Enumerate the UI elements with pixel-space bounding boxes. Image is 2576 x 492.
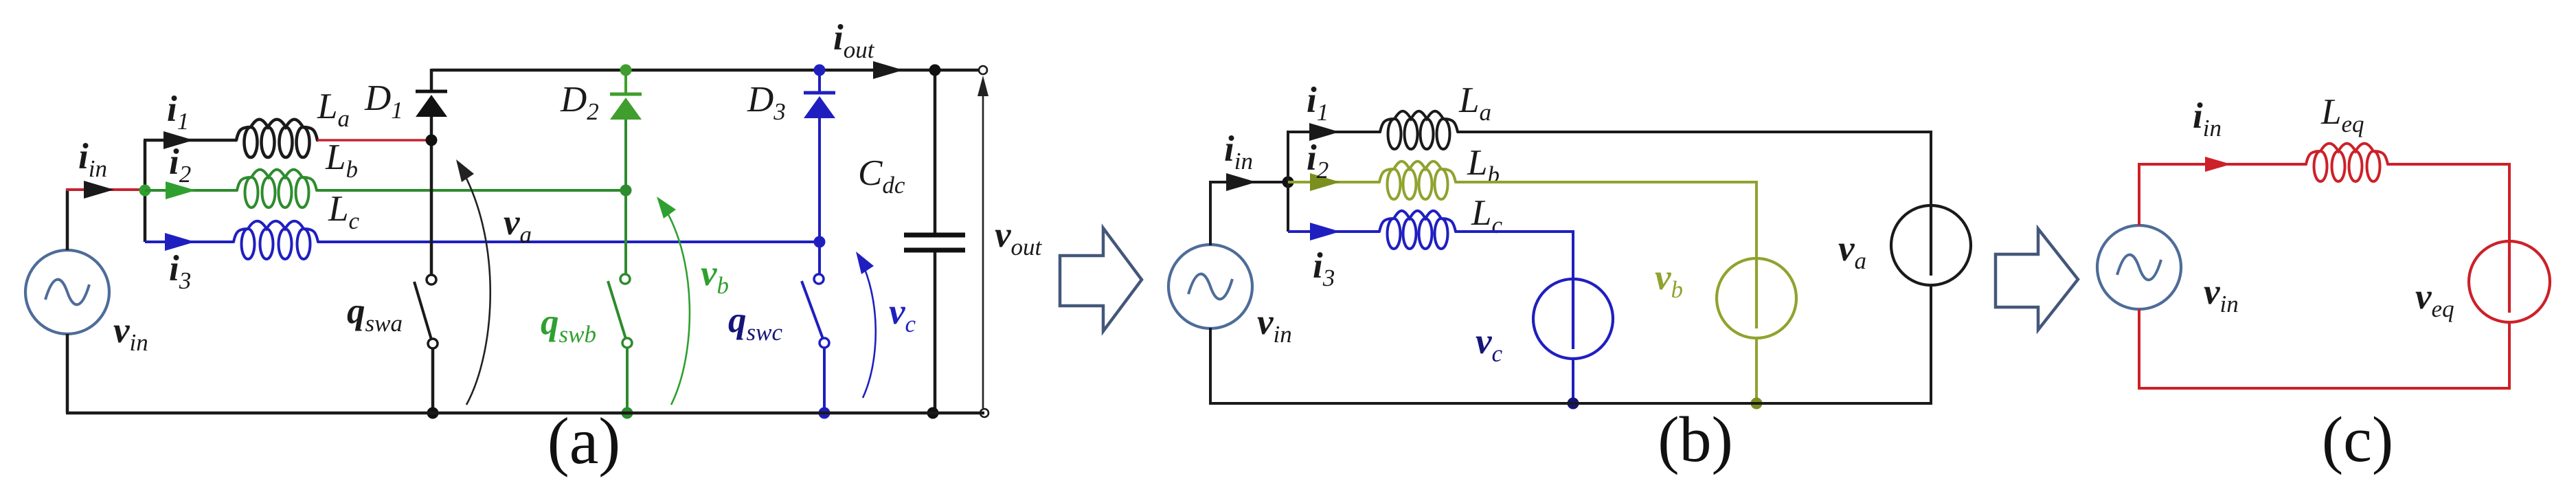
inductor Lc (a): [234, 221, 318, 242]
wire Lc to vc: [1456, 232, 1573, 279]
wire D1 to swa: [430, 117, 433, 275]
wire i2 (green): [145, 189, 237, 192]
svg-text:D3: D3: [747, 80, 786, 125]
wire i2 (b): [1288, 181, 1379, 183]
arrow iin (c): [2205, 157, 2231, 172]
svg-text:D1: D1: [364, 78, 403, 124]
wire D3 to swc: [818, 118, 821, 274]
svg-text:vc: vc: [889, 292, 916, 337]
inductor La (b): [1380, 111, 1458, 132]
node Cdc-toprail: [929, 65, 941, 76]
wire D2 top: [624, 70, 627, 94]
wire swa to rail: [431, 348, 435, 413]
wire bottom rail (b): [1209, 402, 1932, 405]
svg-text:(c): (c): [2322, 404, 2393, 476]
svg-text:D2: D2: [560, 80, 599, 125]
svg-text:qswb: qswb: [541, 302, 596, 348]
wire vin-b top: [1209, 182, 1212, 245]
node blue junction: [814, 236, 826, 248]
svg-text:iin: iin: [78, 137, 107, 182]
svg-text:vc: vc: [1476, 322, 1503, 367]
wire top rail: [431, 69, 983, 72]
wire vin-b bottom: [1209, 328, 1212, 403]
svg-text:qswc: qswc: [728, 300, 782, 346]
wire vin-top to iin: [66, 190, 69, 250]
node vb-rail (olive dot): [1751, 398, 1763, 410]
wire bottom rail (a): [66, 412, 984, 415]
svg-text:(b): (b): [1658, 404, 1733, 476]
svg-text:vb: vb: [701, 254, 729, 299]
source v_b (b): [1717, 258, 1796, 338]
svg-text:i1: i1: [1307, 80, 1329, 126]
node D3-toprail (blue dot): [814, 65, 826, 76]
block arrow b-to-c: [1996, 229, 2078, 330]
block arrow a-to-b: [1060, 228, 1142, 331]
svg-text:va: va: [504, 203, 532, 248]
wire D2 to swb: [624, 120, 627, 274]
wire vc to rail: [1572, 359, 1574, 403]
arrow iin (b): [1226, 173, 1256, 191]
svg-text:Leq: Leq: [2320, 92, 2364, 137]
wire iin (red): [66, 188, 145, 191]
svg-text:vb: vb: [1655, 258, 1683, 303]
inductor Lb (b): [1379, 161, 1456, 182]
wire i3 (b): [1288, 230, 1379, 233]
diode D1: [416, 90, 447, 93]
wire i3 (blue): [145, 241, 234, 243]
wire swc to rail: [823, 348, 826, 413]
wire swb to rail: [626, 348, 629, 413]
node vc-rail (navy dot): [1568, 398, 1579, 410]
wire La to va: [1458, 132, 1931, 205]
wire Lc to D3 (blue): [318, 241, 820, 243]
svg-text:i3: i3: [1313, 246, 1335, 291]
arc v_c: [859, 256, 876, 398]
wire vb to rail: [1755, 338, 1758, 403]
source v_c (b): [1533, 279, 1613, 359]
arc v_b: [659, 200, 690, 405]
wire D3 top: [818, 70, 821, 93]
svg-text:qswa: qswa: [347, 291, 403, 337]
svg-text:La: La: [317, 87, 350, 132]
wire vin-c bottom (red): [2138, 309, 2140, 390]
arrow iin (a): [84, 181, 114, 199]
wire i1: [144, 139, 236, 142]
arrow i1 (b): [1309, 123, 1340, 141]
arrow i2 (a): [166, 181, 196, 199]
svg-text:i2: i2: [169, 142, 191, 188]
arrow iout: [873, 61, 903, 79]
inductor Lc (b): [1379, 211, 1456, 232]
wire D1 top: [430, 69, 433, 91]
svg-text:Lc: Lc: [328, 189, 359, 234]
svg-text:vin: vin: [1257, 302, 1292, 348]
svg-text:Cdc: Cdc: [858, 153, 905, 199]
node junction (b): [1283, 177, 1294, 188]
diode D2: [610, 93, 642, 96]
arrow v_out measure: [982, 84, 984, 408]
svg-text:iin: iin: [2193, 96, 2222, 142]
inductor Lb (a): [237, 170, 317, 190]
switch q_swc: [802, 281, 823, 339]
inductor La (a): [236, 120, 317, 140]
svg-text:i1: i1: [167, 89, 189, 135]
wire vin-c top (red): [2139, 164, 2306, 225]
wire Leq to veq (red): [2388, 164, 2509, 242]
wire Cdc top stem: [934, 70, 937, 233]
arc v_a: [457, 162, 490, 405]
svg-text:va: va: [1838, 229, 1866, 274]
wire vin bottom: [66, 334, 69, 413]
node green junction: [620, 185, 632, 197]
node red-D1 junction: [426, 135, 438, 146]
arrow i1 (a): [163, 131, 194, 149]
wire input node column: [144, 140, 147, 242]
node swc-rail (blue dot): [819, 407, 831, 419]
wire Lb to vb: [1456, 182, 1756, 258]
svg-text:vin: vin: [113, 311, 148, 356]
node Cdc-rail: [927, 407, 939, 419]
wire Lb to D2 (green): [317, 189, 626, 192]
source v_a (b): [1891, 205, 1971, 285]
node swb-rail (green dot): [622, 407, 633, 419]
switch q_swb: [608, 281, 626, 339]
switch q_swa: [414, 282, 431, 339]
terminal out-: [980, 409, 988, 417]
arrow i3 (b): [1310, 223, 1340, 241]
terminal out+: [979, 66, 987, 74]
wire node column (b): [1287, 132, 1289, 232]
source v_eq (c): [2469, 241, 2550, 322]
wire i1 (b): [1287, 131, 1380, 133]
svg-text:veq: veq: [2415, 277, 2454, 322]
svg-text:iout: iout: [833, 18, 875, 63]
node D2-toprail (green dot): [620, 65, 632, 76]
node input junction (green dot): [139, 185, 151, 197]
svg-text:vout: vout: [995, 215, 1043, 260]
svg-text:iin: iin: [1224, 129, 1253, 175]
svg-text:i2: i2: [1307, 138, 1329, 183]
wire bottom rail (c): [2138, 387, 2511, 390]
inductor Leq (c): [2306, 144, 2388, 164]
svg-text:vin: vin: [2204, 272, 2239, 317]
arrow i3 (a): [165, 233, 195, 251]
wire iin (b): [1209, 181, 1289, 183]
wire Cdc bottom stem: [934, 252, 937, 413]
arrow i2 (b): [1310, 173, 1340, 191]
node swa-rail: [427, 407, 439, 419]
wire La to D1 (red): [317, 139, 431, 142]
capacitor Cdc: [904, 233, 965, 238]
svg-text:(a): (a): [547, 404, 621, 478]
svg-text:La: La: [1458, 80, 1491, 126]
ac source Vin (b): [1168, 245, 1252, 328]
svg-text:i3: i3: [169, 249, 191, 294]
svg-text:Lb: Lb: [325, 137, 358, 183]
wire va to rail: [1930, 285, 1932, 403]
wire veq to rail (red): [2508, 322, 2511, 390]
diode D3: [804, 91, 835, 95]
ac source Vin (a): [25, 250, 109, 334]
ac source Vin (c): [2097, 225, 2181, 309]
